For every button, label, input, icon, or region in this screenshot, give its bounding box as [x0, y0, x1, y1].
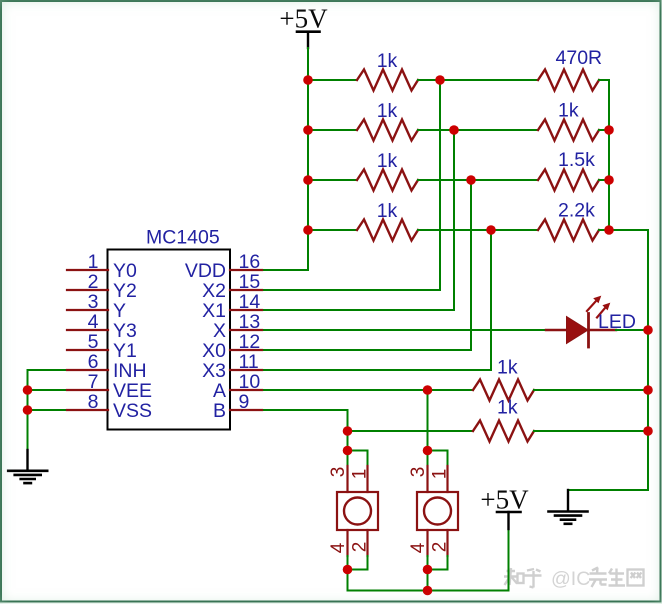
power +5V (bottom) — [480, 485, 529, 530]
wire right column vertical — [608, 80, 610, 230]
U1 left pin numbers — [88, 251, 99, 413]
wire VEE pin7 to left rail — [28, 389, 68, 391]
wire B resistor to right rail — [534, 430, 648, 432]
ground (bottom right) — [549, 490, 588, 524]
resistor 1k (row B) — [473, 397, 534, 442]
wire S1 bottom to rail — [347, 556, 349, 591]
wire left rail vertical — [27, 370, 29, 450]
wire row3 rail to resistor — [308, 179, 357, 181]
wire B pin 9 corner — [262, 410, 348, 431]
wire row4 rail to resistor — [308, 229, 357, 231]
watermark 知乎 @IC先生网 — [504, 568, 644, 591]
wire S1 top jumper — [348, 451, 368, 467]
wire LED cathode to right rail — [616, 329, 648, 331]
resistor 1k (row 2 left) — [357, 100, 418, 141]
wire X pin 13 to LED — [262, 329, 546, 331]
wire node X1 vertical — [453, 130, 455, 310]
wire 1k row2 to right column — [599, 129, 609, 131]
wire node X3 vertical — [490, 230, 492, 370]
wire row3 resistor to node X0 — [418, 179, 471, 181]
wire A node down to button S2 — [427, 390, 429, 466]
resistor 470R — [538, 47, 602, 91]
LED D1 — [546, 296, 636, 347]
wire VSS pin8 to left rail — [28, 409, 68, 411]
wire X3 to pin 11 — [262, 369, 491, 371]
U1 left pin names — [113, 260, 152, 422]
wire X0 to pin 12 — [262, 349, 471, 351]
wire right rail to ground — [568, 489, 648, 491]
U1 right pin names — [185, 260, 226, 422]
wire row2 node to 1k — [454, 129, 538, 131]
wire 1.5k to right column — [599, 179, 609, 181]
U1 right pin leads 16-9 — [230, 270, 262, 410]
resistor 1k (row 3 left) — [357, 150, 418, 191]
IC U1 MC1405 — [108, 227, 231, 430]
wire S2 bottom to rail — [427, 556, 429, 591]
wire A pin 10 to resistor — [262, 389, 473, 391]
resistor 1k (row 1 left) — [357, 50, 418, 91]
wire row2 resistor to node X1 — [418, 129, 454, 131]
wire 2.2k to right rail corner — [599, 229, 648, 231]
wire INH pin6 to left rail — [28, 369, 68, 371]
wire node X0 vertical — [470, 180, 472, 350]
pushbutton S2 — [408, 466, 458, 556]
wire VDD to rail — [262, 269, 308, 271]
U1 left pin leads 1-8 — [67, 270, 108, 410]
U1 right pin numbers — [239, 251, 261, 413]
wire B node down to button S1 — [347, 431, 349, 466]
resistor 1k (row 2 right) — [538, 100, 599, 141]
power +5V (top) — [279, 4, 328, 49]
wire X1 to pin 14 — [262, 309, 454, 311]
resistor 2.2k — [538, 200, 599, 241]
wire row1 node to 470R — [440, 79, 538, 81]
resistor 1.5k — [538, 149, 599, 191]
wire B row to resistor — [348, 430, 474, 432]
wire row4 node to 2.2k — [491, 229, 538, 231]
ground (left) — [8, 450, 47, 483]
wire row3 node to 1.5k — [471, 179, 538, 181]
wire row1 rail to resistor — [308, 79, 357, 81]
wire 470R to right column — [599, 79, 609, 81]
wire row1 resistor to node X2 — [418, 79, 440, 81]
resistor 1k (row 4 left) — [357, 200, 418, 241]
pushbutton S1 — [328, 466, 378, 556]
wire bottom rail — [348, 590, 509, 592]
wire +5V rail vertical — [307, 48, 309, 270]
wire S2 top jumper — [428, 451, 448, 467]
wire S2 bottom jumper — [428, 556, 448, 570]
wire right rail vertical — [647, 230, 649, 490]
wire row4 resistor to node X3 — [418, 229, 491, 231]
wire +5V bottom drop — [508, 529, 510, 591]
wire row2 rail to resistor — [308, 129, 357, 131]
wire X2 to pin 15 — [262, 289, 440, 291]
wire S1 bottom jumper — [348, 556, 368, 570]
wire A resistor to right rail — [534, 389, 648, 391]
wire node X2 vertical — [439, 80, 441, 290]
resistor 1k (row A) — [473, 357, 534, 401]
